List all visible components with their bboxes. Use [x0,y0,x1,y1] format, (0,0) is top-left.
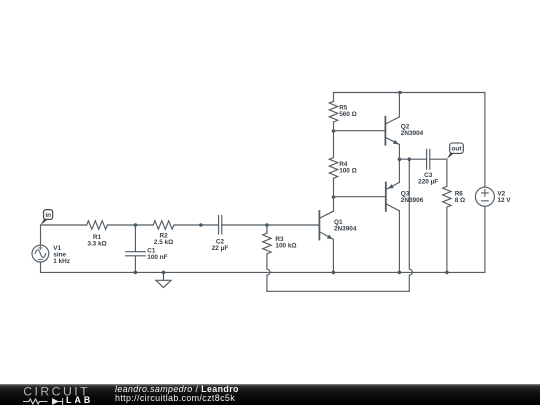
transistor Q3 [386,182,400,211]
wire C1 top lead [134,225,136,252]
resistor R4 [329,158,337,179]
junction top rail [398,91,402,95]
svg-text:100 Ω: 100 Ω [339,167,357,174]
wire R1 to node A [107,224,135,226]
wire R2 to node B [174,224,201,226]
svg-text:1 kHz: 1 kHz [53,258,70,265]
wire feedback rail [267,290,409,292]
junction ground rail [162,271,166,275]
junction Q3 base [332,195,336,199]
wire C2 to node C [222,224,267,226]
junction node A [134,223,138,227]
wire Q1 emitter to rail [332,239,334,272]
svg-text:2N3904: 2N3904 [334,225,357,232]
capacitor C2 [219,216,222,234]
wire C1 bottom lead [134,256,136,272]
junction Q3 collector rail [398,271,402,275]
capacitor C3 [427,149,430,169]
footer credit text [115,385,239,402]
voltage source V2 [475,187,494,206]
voltage source V1 [32,245,49,262]
svg-text:8 Ω: 8 Ω [455,197,465,204]
wire R5 bottom lead [333,122,335,131]
svg-text:100 nF: 100 nF [147,254,167,261]
capacitor C1 [126,252,146,256]
junction R6 rail [445,271,449,275]
CircuitLab logo [0,384,110,405]
wire R4 bottom lead [333,178,335,197]
wire R5 top lead [333,93,335,102]
junction output node left [398,157,402,161]
wire feedback vertical with hop over rail [409,159,412,291]
svg-text:in: in [45,212,51,219]
resistor R6 [443,186,451,207]
svg-text:22 µF: 22 µF [212,245,229,252]
svg-text:100 kΩ: 100 kΩ [275,243,296,250]
wire R3 bottom lead with hop over rail [267,254,270,291]
junction Q1 emitter rail [332,271,336,275]
wire right rail top to V2 [484,93,486,188]
wire R5-R4 link [333,131,335,158]
wire Q1 collector to R4 [333,197,335,211]
wire Q3 base [334,196,386,198]
wire ground stem [163,272,165,280]
svg-text:560 Ω: 560 Ω [339,111,357,118]
junction output node right [408,157,412,161]
wire R6 bottom lead [446,208,448,273]
resistor R3 [263,233,271,254]
svg-text:out: out [452,146,463,153]
wire Q2 base [334,130,385,132]
wire Q2 emitter to Q3 emitter [398,145,400,183]
wire node A to R2 [135,224,153,226]
resistor R5 [329,101,337,122]
svg-text:2N3904: 2N3904 [401,130,424,137]
wire Q2 collector to top rail [398,93,400,117]
node in flag [40,210,52,226]
svg-text:2N3906: 2N3906 [401,197,424,204]
wire Q3 collector to rail [398,211,400,273]
junction C1 rail [134,271,138,275]
junction node C [265,223,269,227]
svg-text:2.5 kΩ: 2.5 kΩ [154,239,173,246]
footer bar [0,384,540,405]
svg-text:3.3 kΩ: 3.3 kΩ [87,241,106,248]
wire bottom ground rail [41,271,485,273]
node out flag [447,143,463,159]
wire node C to Q1 base [267,224,319,226]
wire V2 to bottom rail [484,206,486,272]
transistor Q1 [319,211,333,240]
wire C3 to R6 [430,159,447,186]
wire top supply rail [334,92,485,94]
wire V1 bottom lead [40,262,42,273]
resistor R1 [87,221,108,229]
junction Q2 base [332,129,336,133]
wire node B to C2 [201,224,219,226]
transistor Q2 [385,117,399,145]
wire V1 top lead to R1 [41,225,87,245]
wire R3 top lead [266,225,268,233]
wire output node to C3 [399,158,426,160]
svg-text:12 V: 12 V [497,197,511,204]
ground [156,280,171,287]
junction node B [199,223,203,227]
svg-text:220 µF: 220 µF [418,179,438,186]
footer LAB text [66,396,93,405]
resistor R2 [153,221,174,229]
